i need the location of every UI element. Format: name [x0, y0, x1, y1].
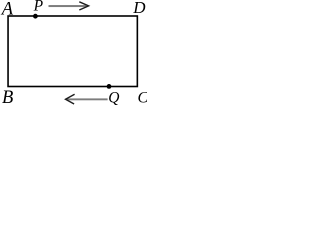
arrow at P head [79, 2, 88, 10]
arrow at P (rightward) shaft [49, 5, 87, 7]
rectangle ABCD [8, 16, 137, 87]
arrow at Q head [66, 94, 75, 104]
svg-text:D: D [132, 0, 146, 17]
point P dot [33, 14, 38, 19]
svg-text:C: C [138, 89, 148, 106]
svg-text:P: P [33, 0, 44, 15]
arrow at Q (leftward) shaft [67, 98, 108, 100]
point Q dot [107, 84, 112, 89]
svg-text:Q: Q [108, 90, 119, 107]
svg-text:B: B [2, 88, 13, 107]
svg-text:A: A [0, 0, 14, 19]
